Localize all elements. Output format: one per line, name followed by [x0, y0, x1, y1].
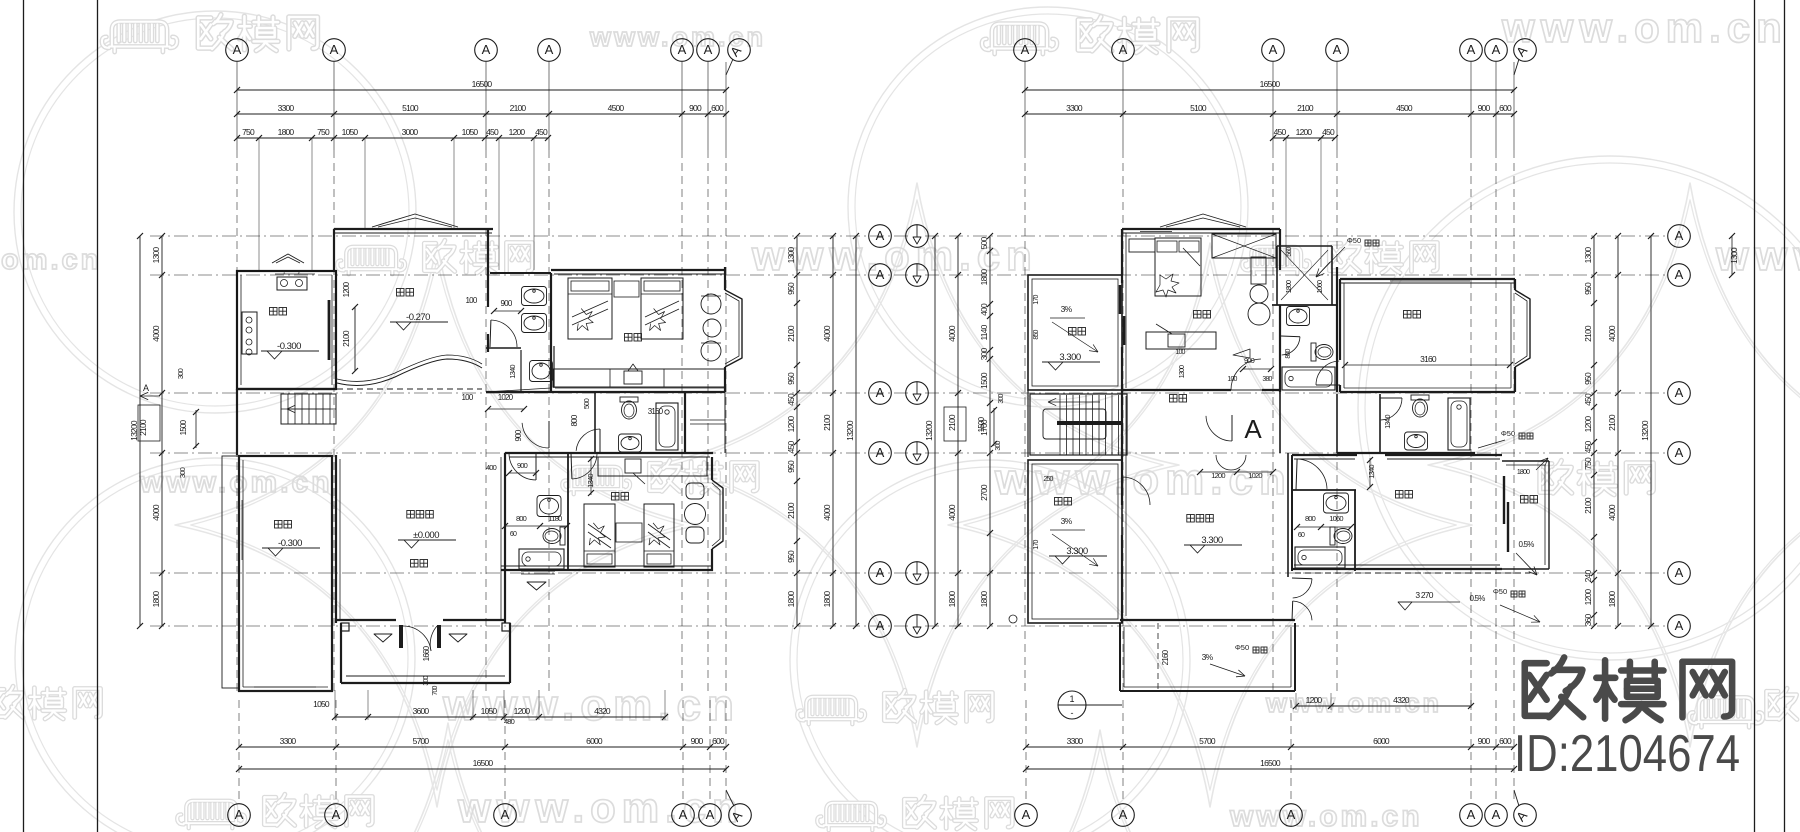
svg-text:300: 300 [423, 675, 430, 685]
svg-text:450: 450 [486, 127, 499, 137]
svg-text:850: 850 [1033, 329, 1040, 339]
svg-text:1300: 1300 [1583, 247, 1593, 264]
svg-text:450: 450 [1583, 441, 1593, 454]
svg-text:3000: 3000 [402, 127, 419, 137]
svg-text:4000: 4000 [1607, 504, 1617, 521]
svg-text:-0.300: -0.300 [277, 341, 301, 352]
svg-text:1050: 1050 [481, 706, 498, 716]
svg-text:A: A [876, 228, 885, 243]
svg-text:900: 900 [691, 736, 704, 746]
svg-text:A: A [678, 42, 687, 57]
svg-text:900: 900 [1478, 736, 1491, 746]
svg-text:3300: 3300 [1066, 103, 1083, 113]
right plan: stairs [1030, 394, 1127, 455]
svg-text:2100: 2100 [510, 103, 527, 113]
svg-text:750: 750 [242, 127, 255, 137]
left plan: porch [340, 623, 342, 683]
svg-text:3300: 3300 [278, 103, 295, 113]
inner wall lines [242, 460, 244, 687]
svg-text:2: 2 [297, 270, 300, 276]
right plan: lower-right bedroom [1396, 491, 1404, 499]
svg-text:300: 300 [178, 467, 187, 478]
right plan: middle bath [1336, 394, 1338, 453]
svg-text:900: 900 [1478, 103, 1491, 113]
svg-text:1800: 1800 [278, 127, 295, 137]
svg-text:A: A [1467, 42, 1476, 57]
svg-text:6000: 6000 [1373, 736, 1390, 746]
svg-text:A: A [1244, 414, 1262, 444]
svg-text:A: A [143, 383, 149, 393]
svg-text:1300: 1300 [1729, 247, 1739, 264]
left plan: kitchen [237, 271, 336, 389]
svg-text:A: A [876, 565, 885, 580]
svg-text:2700: 2700 [979, 484, 989, 501]
svg-text:5100: 5100 [402, 103, 419, 113]
svg-text:800: 800 [1305, 514, 1316, 523]
svg-text:700: 700 [432, 685, 439, 695]
svg-text:3.300: 3.300 [1201, 535, 1222, 546]
svg-text:100: 100 [1175, 349, 1185, 356]
svg-text:300: 300 [995, 440, 1002, 450]
svg-text:1140: 1140 [979, 324, 989, 340]
right plan: top-right bedroom [1340, 278, 1515, 280]
svg-text:450: 450 [1274, 127, 1287, 137]
svg-text:950: 950 [786, 372, 796, 385]
svg-text:3600: 3600 [413, 706, 430, 716]
left plan: corridor bath [620, 397, 638, 419]
svg-text:A: A [1119, 807, 1128, 822]
svg-text:1800: 1800 [947, 591, 957, 608]
svg-text:1180: 1180 [549, 514, 563, 523]
svg-text:A: A [1675, 618, 1684, 633]
svg-text:1300: 1300 [1179, 365, 1186, 378]
svg-text:450: 450 [1322, 127, 1335, 137]
svg-text:4000: 4000 [947, 504, 957, 521]
svg-text:950: 950 [1583, 282, 1593, 295]
svg-text:3300: 3300 [1067, 736, 1084, 746]
svg-text:300: 300 [979, 348, 989, 361]
left plan: garage [239, 456, 332, 691]
svg-text:Φ50: Φ50 [1347, 236, 1361, 245]
svg-text:900: 900 [514, 429, 523, 441]
big logo text bottom right [1525, 657, 1583, 717]
svg-text:16500: 16500 [1260, 758, 1281, 768]
svg-text:A: A [1022, 807, 1031, 822]
svg-text:A: A [1119, 42, 1128, 57]
svg-text:5100: 5100 [1190, 103, 1207, 113]
svg-text:A: A [501, 807, 510, 822]
svg-text:100: 100 [466, 296, 478, 305]
svg-text:450: 450 [786, 393, 796, 406]
svg-text:www.om.cn: www.om.cn [1229, 800, 1423, 832]
svg-text:Φ50: Φ50 [1493, 587, 1507, 596]
right axis circle column [1668, 225, 1691, 248]
section marker 1 [1058, 691, 1086, 719]
svg-text:4000: 4000 [947, 325, 957, 342]
right plan: lower-left balcony [1028, 460, 1122, 623]
svg-text:1050: 1050 [313, 699, 330, 709]
right plan: bottom balcony [1119, 623, 1121, 691]
svg-text:300: 300 [176, 368, 185, 379]
left vertical dims [139, 236, 141, 626]
svg-text:1060: 1060 [1317, 280, 1324, 293]
svg-text:60: 60 [1298, 532, 1305, 539]
svg-text:4320: 4320 [594, 706, 611, 716]
svg-text:560: 560 [1286, 246, 1293, 256]
terrace double doors [1293, 579, 1312, 598]
svg-text:A: A [1675, 565, 1684, 580]
top dimension rows [237, 89, 726, 91]
svg-text:13200: 13200 [924, 420, 934, 441]
svg-text:0.5%: 0.5% [1469, 594, 1485, 603]
svg-text:1200: 1200 [1296, 127, 1313, 137]
svg-text:600: 600 [1499, 736, 1512, 746]
svg-text:250: 250 [1043, 476, 1053, 483]
svg-text:1200: 1200 [1306, 695, 1323, 705]
windows thin lines [275, 273, 315, 275]
axis circles bottom [228, 804, 251, 827]
right plan: far-right balcony [1502, 460, 1549, 462]
svg-text:A: A [1675, 385, 1684, 400]
svg-text:1020: 1020 [498, 393, 514, 402]
svg-text:1200: 1200 [342, 281, 351, 297]
svg-text:4000: 4000 [151, 504, 161, 521]
right plan: top-left balcony [1028, 275, 1122, 390]
svg-text:400: 400 [486, 463, 497, 472]
svg-text:A: A [704, 42, 713, 57]
svg-text:2100: 2100 [822, 414, 832, 431]
svg-text:1: 1 [282, 270, 285, 276]
svg-text:13200: 13200 [845, 420, 855, 441]
svg-text:4320: 4320 [1393, 695, 1410, 705]
svg-text:A: A [876, 385, 885, 400]
svg-text:400: 400 [979, 303, 989, 316]
svg-text:360: 360 [1583, 614, 1593, 627]
svg-text:-: - [1071, 708, 1074, 718]
bay window top right [725, 290, 742, 367]
svg-text:600: 600 [711, 103, 724, 113]
svg-text:1800: 1800 [1607, 591, 1617, 608]
svg-text:900: 900 [501, 299, 513, 308]
svg-text:2100: 2100 [1583, 497, 1593, 514]
svg-text:A: A [876, 267, 885, 282]
svg-text:1200: 1200 [1583, 416, 1593, 433]
left plan: stairs [281, 394, 336, 424]
svg-text:www.om.cn: www.om.cn [1715, 232, 1800, 279]
svg-text:900: 900 [689, 103, 702, 113]
right plan: landing hall [1170, 395, 1178, 403]
svg-text:3.300: 3.300 [1059, 352, 1080, 363]
svg-text:2100: 2100 [1607, 414, 1617, 431]
svg-text:3%: 3% [1061, 516, 1073, 526]
svg-text:www.om.cn: www.om.cn [994, 455, 1292, 504]
svg-text:1340: 1340 [586, 474, 595, 488]
svg-text:A: A [330, 42, 339, 57]
svg-text:-0.270: -0.270 [406, 312, 430, 323]
svg-text:1200: 1200 [1583, 589, 1593, 606]
svg-text:1300: 1300 [786, 247, 796, 264]
svg-text:950: 950 [786, 460, 796, 473]
svg-text:www.om.cn: www.om.cn [139, 466, 333, 499]
svg-text:3160: 3160 [1420, 354, 1437, 364]
svg-text:2100: 2100 [947, 414, 957, 431]
svg-text:A: A [1287, 807, 1296, 822]
svg-text:450: 450 [1583, 393, 1593, 406]
svg-text:A: A [1467, 807, 1476, 822]
svg-text:www.om.cn: www.om.cn [1265, 688, 1442, 718]
svg-text:1800: 1800 [786, 591, 796, 608]
svg-text:-0.300: -0.300 [278, 538, 302, 549]
svg-text:ID:2104674: ID:2104674 [1514, 725, 1740, 783]
svg-text:60: 60 [510, 531, 517, 538]
svg-text:1800: 1800 [979, 591, 989, 608]
svg-text:450: 450 [535, 127, 548, 137]
svg-text:2100: 2100 [138, 419, 148, 436]
svg-text:www.om.cn: www.om.cn [1501, 4, 1788, 51]
svg-text:750: 750 [317, 127, 330, 137]
svg-text:4000: 4000 [822, 504, 832, 521]
svg-text:A: A [235, 807, 244, 822]
page border [23, 0, 25, 832]
svg-text:4500: 4500 [1396, 103, 1413, 113]
svg-text:Φ50: Φ50 [1501, 429, 1515, 438]
svg-text:1200: 1200 [514, 706, 531, 716]
svg-text:900: 900 [517, 461, 528, 470]
svg-text:1200: 1200 [509, 127, 526, 137]
svg-text:800: 800 [1285, 348, 1292, 358]
right plan canopy [1160, 214, 1246, 227]
svg-text:1200: 1200 [786, 416, 796, 433]
svg-text:A: A [876, 618, 885, 633]
svg-text:2100: 2100 [786, 502, 796, 519]
svg-text:950: 950 [786, 550, 796, 563]
svg-text:Φ50: Φ50 [1235, 643, 1249, 652]
svg-text:500: 500 [979, 237, 989, 250]
svg-text:16500: 16500 [473, 758, 494, 768]
svg-text:800: 800 [516, 514, 527, 523]
right plan: master bedroom [1122, 228, 1280, 230]
svg-text:3.300: 3.300 [1066, 546, 1087, 557]
svg-text:480: 480 [504, 717, 515, 726]
svg-text:240: 240 [1583, 570, 1593, 583]
svg-text:500: 500 [582, 398, 591, 409]
right plan: lower bath [1292, 454, 1357, 456]
svg-text:6000: 6000 [586, 736, 603, 746]
svg-text:450: 450 [786, 441, 796, 454]
svg-text:1800: 1800 [1286, 280, 1293, 293]
right vertical dims [1593, 236, 1595, 626]
svg-text:800: 800 [570, 414, 579, 426]
svg-text:A: A [679, 807, 688, 822]
left plan: top bath [490, 272, 551, 274]
svg-text:A: A [1492, 42, 1501, 57]
mid vertical dims (left plan right side) [796, 236, 798, 626]
svg-text:1500: 1500 [179, 419, 188, 435]
svg-text:1660: 1660 [422, 645, 431, 661]
svg-text:4000: 4000 [151, 325, 161, 342]
svg-text:950: 950 [786, 282, 796, 295]
svg-text:134.0: 134.0 [1385, 414, 1392, 428]
svg-text:1800: 1800 [822, 591, 832, 608]
svg-text:1050: 1050 [462, 127, 479, 137]
svg-text:1: 1 [1069, 694, 1074, 704]
svg-text:2100: 2100 [786, 325, 796, 342]
svg-text:2100: 2100 [341, 330, 351, 347]
svg-text:A: A [1675, 267, 1684, 282]
svg-text:1500: 1500 [977, 416, 986, 432]
mid vertical dims (right plan left side) [989, 236, 991, 626]
svg-text:4000: 4000 [822, 325, 832, 342]
svg-text:A: A [332, 807, 341, 822]
svg-text:om.cn: om.cn [1, 244, 101, 276]
svg-text:170: 170 [1033, 294, 1040, 304]
svg-text:A: A [1675, 445, 1684, 460]
svg-text:5700: 5700 [1199, 736, 1216, 746]
svg-text:A: A [233, 42, 242, 57]
svg-text:3160: 3160 [648, 407, 664, 416]
svg-text:3 270: 3 270 [1415, 590, 1433, 600]
svg-text:750: 750 [1583, 457, 1593, 470]
svg-text:A: A [1021, 42, 1030, 57]
left plan: living room [334, 228, 493, 230]
svg-text:16500: 16500 [472, 79, 493, 89]
svg-text:100: 100 [462, 393, 474, 402]
svg-text:950: 950 [1583, 372, 1593, 385]
svg-text:A: A [482, 42, 491, 57]
grid lines [150, 235, 908, 237]
svg-text:4000: 4000 [1607, 325, 1617, 342]
svg-text:1800: 1800 [1517, 469, 1530, 476]
axis circles top [226, 39, 249, 62]
left plan: middle wall [237, 388, 336, 390]
right plan: bottom-right terrace [1295, 572, 1530, 574]
svg-text:5700: 5700 [413, 736, 430, 746]
svg-text:1500: 1500 [979, 372, 989, 389]
svg-text:13200: 13200 [1640, 420, 1650, 441]
svg-text:2100: 2100 [1297, 103, 1314, 113]
left plan: lower suite [505, 452, 713, 454]
right plan: top bath [1277, 245, 1332, 247]
svg-text:3%: 3% [1061, 304, 1073, 314]
svg-text:600: 600 [1499, 103, 1512, 113]
svg-text:A: A [1269, 42, 1278, 57]
left plan: living-2 [335, 455, 337, 623]
svg-text:1050: 1050 [342, 127, 359, 137]
svg-text:1340: 1340 [1367, 465, 1376, 479]
right plan: living room [1121, 392, 1123, 505]
svg-text:1340: 1340 [508, 365, 517, 379]
svg-text:3300: 3300 [280, 736, 297, 746]
svg-text:A: A [1492, 807, 1501, 822]
svg-text:A: A [876, 445, 885, 460]
svg-text:170: 170 [1033, 539, 1040, 549]
svg-text:A: A [1333, 42, 1342, 57]
bottom dimension rows [335, 716, 665, 718]
svg-text:A: A [706, 807, 715, 822]
svg-text:380: 380 [1262, 376, 1272, 383]
svg-text:1800: 1800 [151, 591, 161, 608]
svg-text:2100: 2100 [1583, 325, 1593, 342]
svg-text:1060: 1060 [1329, 514, 1343, 523]
svg-text:900: 900 [1244, 356, 1255, 365]
svg-text:2160: 2160 [1161, 649, 1170, 665]
svg-text:±0.000: ±0.000 [413, 530, 439, 541]
svg-text:600: 600 [712, 736, 725, 746]
svg-text:300: 300 [998, 393, 1005, 403]
svg-text:A: A [545, 42, 554, 57]
svg-text:100: 100 [1227, 376, 1237, 383]
svg-text:A: A [1675, 228, 1684, 243]
svg-text:16500: 16500 [1260, 79, 1281, 89]
svg-text:1800: 1800 [979, 269, 989, 286]
svg-text:1300: 1300 [151, 247, 161, 264]
left plan: top bedroom [551, 269, 725, 271]
svg-text:3%: 3% [1202, 652, 1214, 662]
svg-text:0.5%: 0.5% [1518, 540, 1534, 549]
svg-text:4500: 4500 [608, 103, 625, 113]
middle axis circle columns [869, 225, 892, 248]
